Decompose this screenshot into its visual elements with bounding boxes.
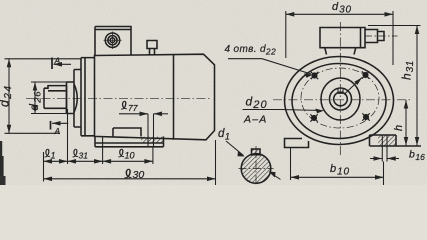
cable gland (end view) xyxy=(365,30,384,43)
shaft with key xyxy=(44,86,67,114)
right foot hatch xyxy=(378,135,396,146)
bolt circle (dash-dot) xyxy=(301,68,379,128)
motor body (side view) xyxy=(95,54,215,140)
side view centerline xyxy=(26,97,212,99)
section mark A bottom xyxy=(51,121,69,130)
leader d20 xyxy=(243,109,324,114)
label l30 xyxy=(125,169,132,178)
box pedestal xyxy=(325,48,356,55)
bearing hub d26 xyxy=(67,82,75,114)
dimension b16 xyxy=(370,158,399,160)
key width arrow xyxy=(269,172,281,180)
dimension h31 xyxy=(368,26,421,146)
bearing shield xyxy=(81,58,95,136)
right foot hole lines xyxy=(382,135,387,162)
label l1 xyxy=(44,149,50,157)
mounting hole top-right xyxy=(362,71,369,78)
leader 4 holes d22 xyxy=(228,59,313,78)
scan edge artifact left xyxy=(0,141,2,185)
dimension l77 xyxy=(119,113,168,115)
mounting hole bottom-right xyxy=(362,113,369,120)
lifting eyebolt xyxy=(147,41,157,56)
gland crosshair xyxy=(104,32,122,50)
mounting hole bottom-left xyxy=(310,114,317,121)
dimension b10 xyxy=(291,162,384,186)
label l10 xyxy=(118,149,124,157)
leader d1 xyxy=(226,141,245,157)
left foot (end view) xyxy=(285,139,309,148)
dimension d24 xyxy=(5,59,82,134)
hub dome arc xyxy=(74,84,77,113)
flange disc d24 xyxy=(74,70,81,128)
terminal box (side view) xyxy=(95,27,131,56)
label l31 xyxy=(72,149,78,157)
label l77 xyxy=(121,101,127,109)
key on shaft section xyxy=(252,149,261,155)
right foot (end view) xyxy=(370,135,422,146)
shaft circle xyxy=(334,92,348,106)
left foot hole axis xyxy=(290,148,292,180)
end view vertical centerline xyxy=(339,22,341,155)
mounting hole top-left xyxy=(311,72,318,79)
frame outer circle xyxy=(285,57,394,145)
frame rim circle xyxy=(292,64,386,139)
foot bolt hole lines xyxy=(148,114,154,147)
shaft keyway notch xyxy=(338,88,343,93)
dimension h xyxy=(405,100,407,146)
section crosshair xyxy=(239,146,274,185)
foot pad xyxy=(113,128,141,137)
foot plate xyxy=(95,137,164,147)
terminal box (end view) xyxy=(320,28,365,48)
gland centerline xyxy=(365,35,398,37)
flange spigot d20 xyxy=(321,78,360,120)
dimension row l1 l31 l10 xyxy=(44,109,153,182)
bolt circle radius leader xyxy=(344,78,362,95)
foot section hatch xyxy=(141,137,164,143)
body internal vertical line xyxy=(173,54,175,140)
cable gland circle xyxy=(105,33,119,47)
dimension d30 xyxy=(286,11,393,65)
end view horizontal centerline xyxy=(273,99,411,101)
paper background xyxy=(0,0,427,185)
dimension l30 xyxy=(44,140,216,185)
dimension d26 xyxy=(31,82,67,114)
section mark A top xyxy=(52,58,71,70)
shaft hub circle xyxy=(330,88,352,110)
shaft section circle xyxy=(241,154,271,184)
